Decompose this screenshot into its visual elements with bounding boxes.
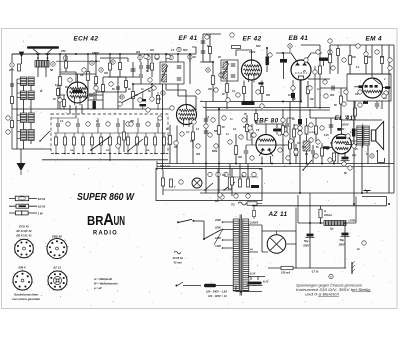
svg-text:und 0·α Bereich: und 0·α Bereich	[305, 293, 339, 297]
svg-text:EL 41: EL 41	[335, 115, 354, 122]
svg-text:MBV: MBV	[92, 52, 100, 56]
svg-text:300: 300	[330, 94, 335, 97]
svg-text:0,1: 0,1	[345, 115, 349, 118]
svg-text:2M: 2M	[367, 57, 371, 59]
svg-text:100: 100	[288, 94, 293, 97]
svg-text:0,1: 0,1	[186, 131, 190, 134]
svg-text:Spannungen gegen Chassis gemes: Spannungen gegen Chassis gemessen	[296, 284, 362, 288]
svg-text:EF 42: EF 42	[243, 36, 262, 43]
svg-text:-17 Ω-: -17 Ω-	[311, 270, 319, 274]
svg-text:350V: 350V	[339, 243, 345, 247]
svg-text:20: 20	[192, 56, 196, 59]
svg-text:240V: 240V	[214, 218, 221, 222]
svg-text:100: 100	[157, 98, 162, 101]
svg-text:W = Wellenbereich: W = Wellenbereich	[94, 282, 118, 286]
svg-text:1/2 W: 1/2 W	[38, 205, 46, 209]
svg-text:μ = μF: μ = μF	[93, 286, 102, 290]
svg-text:1n: 1n	[292, 118, 295, 121]
svg-text:m: m	[376, 151, 378, 153]
svg-text:13.500: 13.500	[309, 132, 316, 134]
svg-text:40-65 Hz: 40-65 Hz	[172, 256, 184, 260]
svg-text:25V: 25V	[339, 128, 345, 131]
svg-text:SUPER 860 W: SUPER 860 W	[77, 192, 135, 203]
svg-text:RADIO: RADIO	[93, 230, 118, 237]
svg-text:200: 200	[8, 68, 14, 72]
svg-text:EB 41: EB 41	[289, 35, 309, 42]
svg-text:1M: 1M	[190, 141, 193, 143]
svg-text:2,2: 2,2	[59, 121, 64, 123]
svg-text:25V: 25V	[60, 49, 66, 53]
svg-text:6,3V: 6,3V	[250, 272, 256, 276]
svg-text:von unten gesehen: von unten gesehen	[12, 297, 40, 301]
svg-text:1/4 W: 1/4 W	[38, 197, 46, 201]
svg-text:220V: 220V	[214, 225, 221, 229]
svg-text:150 mA: 150 mA	[281, 271, 290, 275]
svg-text:300: 300	[320, 58, 325, 61]
svg-text:25μ: 25μ	[351, 154, 357, 157]
svg-text:500k: 500k	[212, 150, 218, 153]
svg-text:2x300V: 2x300V	[249, 222, 259, 225]
svg-text:110 - 125V = 1A: 110 - 125V = 1A	[208, 294, 227, 298]
svg-text:0,25: 0,25	[324, 135, 329, 137]
svg-text:m = Meßpunkt: m = Meßpunkt	[94, 277, 112, 281]
svg-text:300: 300	[238, 156, 243, 159]
svg-text:UN: UN	[114, 213, 126, 228]
svg-text:ECH 42: ECH 42	[74, 36, 99, 43]
svg-text:RC1000: RC1000	[243, 102, 252, 105]
svg-text:50V: 50V	[256, 44, 261, 48]
svg-text:7Ω: 7Ω	[231, 203, 234, 207]
svg-text:300: 300	[196, 153, 201, 156]
svg-text:300: 300	[208, 88, 213, 91]
svg-text:6,3V: 6,3V	[263, 280, 269, 284]
svg-text:+250V: +250V	[348, 219, 357, 223]
svg-text:42 mm: 42 mm	[173, 261, 183, 265]
svg-text:50k: 50k	[266, 94, 271, 97]
svg-text:50: 50	[50, 68, 54, 72]
svg-text:EM 4: EM 4	[18, 266, 25, 270]
svg-text:EM 4: EM 4	[366, 36, 383, 43]
svg-text:50V: 50V	[183, 48, 188, 52]
svg-text:100: 100	[222, 174, 227, 177]
svg-text:50μ: 50μ	[340, 238, 345, 242]
svg-text:BR: BR	[87, 213, 104, 228]
svg-text:ECH 42: ECH 42	[19, 225, 29, 229]
svg-text:1 W: 1 W	[38, 211, 43, 215]
svg-text:EB 41 EL 41: EB 41 EL 41	[16, 234, 32, 238]
svg-text:Sockelansichten: Sockelansichten	[14, 293, 39, 297]
svg-text:4V: 4V	[249, 249, 253, 252]
svg-text:Sp: Sp	[330, 227, 334, 231]
svg-text:204: 204	[135, 51, 141, 54]
svg-text:2x: 2x	[356, 248, 360, 251]
svg-text:160mA: 160mA	[324, 214, 332, 217]
svg-text:500: 500	[302, 146, 307, 149]
svg-text:A: A	[103, 210, 114, 229]
svg-text:220 - 240V ~ 1,5A: 220 - 240V ~ 1,5A	[205, 290, 227, 294]
svg-text:110V: 110V	[215, 244, 221, 248]
svg-text:0,1: 0,1	[317, 88, 321, 91]
svg-text:200V: 200V	[341, 123, 350, 127]
svg-text:AZ 11: AZ 11	[52, 266, 61, 270]
svg-text:AZ 11: AZ 11	[268, 211, 288, 218]
svg-text:EBF 80: EBF 80	[255, 118, 279, 125]
svg-text:50μ: 50μ	[304, 239, 309, 243]
svg-text:204: 204	[149, 49, 155, 52]
svg-text:60mA 0,1: 60mA 0,1	[160, 165, 171, 168]
svg-text:30k: 30k	[104, 72, 109, 75]
svg-text:Instrument 333 Ω/V, 350V bei S: Instrument 333 Ω/V, 350V bei Stellg.	[296, 288, 371, 292]
svg-text:350V: 350V	[303, 244, 309, 248]
svg-text:EF 41: EF 41	[179, 35, 198, 42]
